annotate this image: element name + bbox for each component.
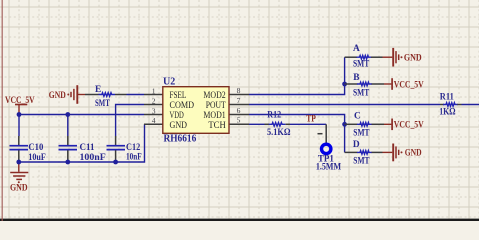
- junction node B / pin8 net: [342, 82, 347, 87]
- svg-text:VCC_5V: VCC_5V: [5, 96, 35, 106]
- junction ground rail / C10 / GND: [16, 160, 21, 165]
- svg-text:C11: C11: [80, 143, 95, 153]
- junction VCC rail / C10: [17, 112, 22, 117]
- svg-text:U2: U2: [163, 76, 175, 87]
- svg-text:SMT: SMT: [353, 89, 370, 99]
- resistor R12: [265, 123, 270, 125]
- svg-text:GND: GND: [10, 184, 28, 194]
- svg-text:C10: C10: [28, 143, 43, 153]
- svg-text:2: 2: [152, 96, 156, 105]
- ferrite bead D: [345, 151, 358, 153]
- wire pin8 to A/B: [249, 57, 345, 94]
- wire pin2 to C12: [116, 105, 144, 137]
- svg-text:GND: GND: [170, 120, 188, 131]
- ferrite bead A: [345, 56, 357, 58]
- svg-text:SMT: SMT: [353, 128, 370, 138]
- svg-text:VCC_5V: VCC_5V: [394, 121, 424, 131]
- power port VCC_5V at B: [384, 78, 392, 90]
- U2 pin numbers left: [152, 86, 156, 125]
- svg-text:GND: GND: [405, 149, 422, 159]
- power port VCC_5V top left: [15, 105, 27, 115]
- U2 pins right: [229, 95, 249, 125]
- test point TP1: [325, 124, 327, 143]
- svg-text:1: 1: [152, 86, 156, 95]
- power port GND at A: [383, 48, 399, 67]
- window bottom edge bar: [0, 219, 479, 221]
- svg-text:5: 5: [237, 116, 241, 125]
- sheet border: [1, 0, 3, 221]
- resistor R11: [440, 104, 444, 106]
- wire C10 top lead upper: [18, 115, 20, 137]
- svg-text:10uF: 10uF: [28, 153, 46, 163]
- svg-text:R11: R11: [440, 92, 454, 102]
- svg-text:SMT: SMT: [353, 156, 370, 166]
- svg-text:SMT: SMT: [95, 99, 110, 109]
- junction VCC rail / C11: [65, 112, 70, 117]
- svg-text:4: 4: [152, 116, 156, 125]
- svg-text:C12: C12: [126, 143, 140, 153]
- svg-text:TP: TP: [306, 114, 316, 124]
- svg-text:A: A: [353, 44, 360, 54]
- ferrite bead B: [345, 83, 358, 85]
- svg-text:C: C: [354, 111, 361, 121]
- svg-text:RH6616: RH6616: [164, 134, 197, 145]
- capacitor C12: [115, 136, 117, 145]
- capacitor C10: [18, 136, 20, 145]
- U2 pin names left: [170, 90, 195, 131]
- svg-text:E: E: [95, 85, 101, 95]
- junction node C / pin6 net: [342, 122, 347, 127]
- svg-text:6: 6: [237, 106, 241, 115]
- wire pin5 to R12: [249, 123, 265, 125]
- ferrite bead C: [345, 123, 358, 125]
- svg-text:10nF: 10nF: [126, 152, 142, 162]
- wire R12 to TP: [290, 123, 326, 125]
- svg-text:R12: R12: [267, 110, 281, 120]
- svg-text:TCH: TCH: [208, 120, 225, 131]
- svg-text:5.1KΩ: 5.1KΩ: [267, 128, 291, 138]
- svg-text:SMT: SMT: [353, 60, 370, 70]
- wire C/D vertical: [344, 124, 346, 152]
- U2 pin names right: [203, 90, 225, 131]
- svg-text:GND: GND: [404, 53, 422, 63]
- power port VCC_5V at C: [384, 119, 392, 131]
- svg-text:GND: GND: [49, 91, 66, 101]
- power port GND at D: [383, 144, 399, 162]
- svg-text:B: B: [353, 73, 359, 83]
- U2 pins left: [144, 95, 163, 125]
- junction ground rail / C12: [113, 160, 118, 165]
- wire C11 top lead upper: [67, 115, 69, 137]
- svg-text:1KΩ: 1KΩ: [439, 107, 456, 117]
- op IC U2 body: [163, 87, 229, 134]
- svg-text:100nF: 100nF: [80, 153, 107, 163]
- wire ground rail pin4: [19, 124, 145, 162]
- svg-text:7: 7: [237, 96, 241, 105]
- svg-text:VCC_5V: VCC_5V: [394, 80, 424, 90]
- power port GND at E: [71, 85, 85, 104]
- ferrite bead E: [99, 93, 116, 97]
- svg-text:8: 8: [237, 86, 241, 95]
- svg-text:D: D: [353, 140, 360, 150]
- wire pin7 to R11: [249, 104, 440, 106]
- wire R11 to edge: [462, 104, 479, 106]
- ground symbol bottom left: [10, 162, 28, 179]
- wire VCC rail pin3: [19, 114, 144, 116]
- wire pin1 to E: [115, 94, 127, 96]
- U2 pin numbers right: [237, 86, 241, 125]
- svg-text:3: 3: [152, 106, 156, 115]
- junction ground rail / C11: [65, 160, 70, 165]
- svg-text:1.5MM: 1.5MM: [316, 162, 341, 172]
- wire pin6 to C/D junction: [249, 115, 345, 125]
- capacitor C11: [67, 136, 69, 145]
